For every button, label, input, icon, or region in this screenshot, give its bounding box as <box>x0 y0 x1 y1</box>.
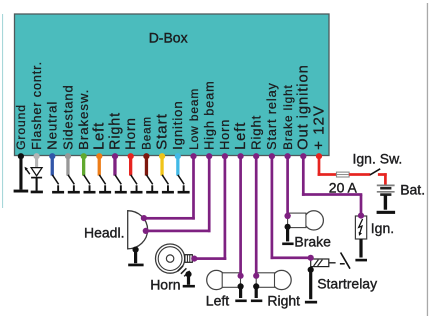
pin label Brake light (pin 18) <box>281 84 295 150</box>
pin label Left (pin 6) <box>92 122 108 150</box>
wire Brake light (pin18) to brake bulb <box>286 156 289 217</box>
node left bulb <box>238 273 244 279</box>
svg-text:Sidestand: Sidestand <box>60 84 75 149</box>
battery Bat. <box>377 185 395 209</box>
terminal node pin 19 (Out ignition) <box>300 153 306 159</box>
wire Right (pin7) <box>113 156 116 176</box>
pin label Right (pin 16) <box>249 115 264 150</box>
horn terminal bracket <box>185 255 192 263</box>
switch Sidestand to ground <box>68 175 80 194</box>
svg-text:Out ignition: Out ignition <box>296 64 312 150</box>
label Brake <box>294 233 331 249</box>
label Startrelay <box>317 275 377 291</box>
terminal node pin 1 (Ground) <box>18 153 24 159</box>
label Left <box>206 292 229 308</box>
startrelay coil K1 <box>311 259 329 267</box>
svg-text:Ground: Ground <box>14 104 28 150</box>
switch Right to ground <box>115 175 127 194</box>
svg-text:Ign.: Ign. <box>371 220 394 236</box>
label Right <box>267 292 300 308</box>
svg-text:D-Box: D-Box <box>149 30 188 46</box>
wire Start relay (pin17) to startrelay coil <box>271 156 311 259</box>
svg-text:Startrelay: Startrelay <box>317 275 377 291</box>
wire ignition switch to battery <box>378 173 387 186</box>
wire Brakesw. (pin5) <box>82 156 85 176</box>
terminal node pin 17 (Start relay) <box>269 153 275 159</box>
headlight lamp Headl. <box>128 211 148 249</box>
terminal node pin 15 (Left) <box>238 153 244 159</box>
wire Flasher contr. (pin2) <box>35 156 38 168</box>
horn mount hatching <box>178 266 190 277</box>
terminal node pin 14 (Horn) <box>222 153 228 159</box>
D-Box control box U1 <box>15 14 330 156</box>
svg-text:Ign. Sw.: Ign. Sw. <box>353 150 403 166</box>
wire Beam (pin9) <box>145 156 148 176</box>
pin label Left (pin 15) <box>233 122 249 150</box>
svg-text:+ 12V: + 12V <box>310 105 327 150</box>
node low beam at headlight <box>141 215 147 221</box>
right page edge line <box>427 3 428 316</box>
terminal node pin 13 (High beam) <box>206 153 212 159</box>
terminal node pin 3 (Neutral) <box>49 153 55 159</box>
terminal node pin 2 (Flasher contr.) <box>34 153 40 159</box>
pin label Ground (pin 1) <box>14 104 28 150</box>
ground lead right bulb <box>253 283 259 298</box>
svg-text:Right: Right <box>249 115 264 150</box>
svg-text:Start relay: Start relay <box>265 82 279 150</box>
terminal node pin 12 (Low beam) <box>190 153 196 159</box>
wire Horn (pin14) to horn <box>194 156 226 260</box>
pin label Horn (pin 8) <box>123 117 138 150</box>
node horn feed <box>191 256 197 262</box>
left indicator bulb <box>207 270 241 289</box>
switch Ignition to ground <box>178 175 190 194</box>
fuse 20 A <box>337 172 350 177</box>
switch Horn to ground <box>131 175 143 194</box>
svg-text:Horn: Horn <box>150 276 180 292</box>
ground symbol startrelay <box>305 301 317 304</box>
svg-text:Horn: Horn <box>218 119 232 150</box>
terminal node pin 6 (Left) <box>96 153 102 159</box>
svg-text:Horn: Horn <box>123 117 138 150</box>
horn <box>156 244 185 273</box>
svg-text:Low beam: Low beam <box>187 88 201 150</box>
svg-text:Left: Left <box>206 292 229 308</box>
svg-text:Left: Left <box>233 122 249 150</box>
ground lead ignition coil <box>359 239 362 258</box>
pin label Flasher contr. (pin 2) <box>30 61 44 150</box>
left page edge line <box>2 14 3 208</box>
svg-text:Right: Right <box>107 112 123 150</box>
label Ign. Sw. <box>353 150 403 166</box>
wire Start (pin10) <box>160 156 163 176</box>
node right bulb <box>253 273 259 279</box>
terminal node pin 10 (Start) <box>159 153 165 159</box>
redraw brake node over bulb <box>285 213 291 219</box>
svg-text:High beam: High beam <box>203 80 217 149</box>
wire High beam (pin13) to headlight <box>146 156 211 232</box>
wire Out ignition (pin19) to ignition coil <box>302 156 362 216</box>
wire Ground (pin1) <box>19 156 22 190</box>
indicator lamp LED (flasher control) <box>25 167 43 191</box>
svg-text:Right: Right <box>267 292 300 308</box>
wire Low beam (pin12) to headlight <box>144 156 195 220</box>
svg-text:Brakesw.: Brakesw. <box>76 89 91 150</box>
pin label Right (pin 7) <box>107 112 123 150</box>
pin label Horn (pin 14) <box>218 119 232 150</box>
pin label Out ignition (pin 19) <box>296 64 312 150</box>
pin label Brakesw. (pin 5) <box>76 89 91 150</box>
terminal node pin 5 (Brakesw.) <box>81 153 87 159</box>
ground symbol left bulb <box>235 300 246 303</box>
node ignition coil <box>358 213 364 219</box>
brake light bulb <box>288 211 324 230</box>
ground symbol right bulb <box>251 300 262 303</box>
pin label Low beam (pin 12) <box>187 88 201 150</box>
pin label Sidestand (pin 4) <box>60 84 75 149</box>
wire fuse to ignition switch <box>349 173 370 176</box>
ground symbol headlight <box>128 264 143 267</box>
svg-text:Start: Start <box>153 113 170 150</box>
svg-text:Beam: Beam <box>141 116 154 150</box>
svg-text:Brake light: Brake light <box>281 84 295 150</box>
ground symbol pin2 <box>31 191 43 194</box>
svg-text:Ignition: Ignition <box>170 100 185 149</box>
node startrelay coil <box>308 255 314 261</box>
switch Start to ground <box>162 175 174 194</box>
svg-text:20 A: 20 A <box>329 180 358 196</box>
wire Left (pin15) to left indicators <box>239 156 242 277</box>
svg-text:Bat.: Bat. <box>400 182 425 198</box>
wire Horn (pin8) <box>129 156 132 176</box>
ground lead headlight <box>133 247 139 264</box>
terminal node pin 11 (Ignition) <box>175 153 181 159</box>
pin label Ignition (pin 11) <box>170 100 185 149</box>
terminal node pin 7 (Right) <box>112 153 118 159</box>
terminal node pin 20 (+ 12V) <box>316 153 322 159</box>
wire +12V (pin20) to fuse <box>318 156 338 176</box>
terminal node pin 8 (Horn) <box>128 153 134 159</box>
ground lead startrelay <box>308 267 314 300</box>
pin label Neutral (pin 3) <box>45 101 60 150</box>
ground symbol battery <box>377 211 396 214</box>
terminal node pin 18 (Brake light) <box>285 153 291 159</box>
ground symbol brake bulb <box>282 243 293 246</box>
pin label High beam (pin 13) <box>203 80 217 149</box>
wire Sidestand (pin4) <box>66 156 69 176</box>
switch Brakesw. to ground <box>84 175 96 194</box>
ground lead horn <box>185 271 191 285</box>
svg-text:Headl.: Headl. <box>84 225 124 241</box>
switch Ign. Sw. lever <box>370 169 380 175</box>
label Headl. <box>84 225 124 241</box>
switch Neutral to ground <box>52 175 64 194</box>
switch starter contact <box>340 253 350 269</box>
label 20 A <box>329 180 358 196</box>
label Ign. <box>371 220 394 236</box>
ignition coil Ign. <box>355 216 366 239</box>
ground lead left bulb <box>238 283 244 298</box>
pin label Start relay (pin 17) <box>265 82 279 150</box>
node high beam at headlight <box>143 228 149 234</box>
svg-text:Brake: Brake <box>294 233 331 249</box>
terminal node pin 9 (Beam) <box>143 153 149 159</box>
ground symbol horn <box>183 285 195 288</box>
label Horn <box>150 276 180 292</box>
switch Left to ground <box>99 175 111 194</box>
ground symbol pin1 <box>14 190 29 193</box>
terminal node pin 16 (Right) <box>253 153 259 159</box>
pin label Start (pin 10) <box>153 113 170 150</box>
pin label + 12V (pin 20) <box>310 105 327 150</box>
svg-text:Neutral: Neutral <box>45 101 60 150</box>
svg-text:Left: Left <box>92 122 108 150</box>
node brake bulb <box>285 213 291 219</box>
wire relay to starter switch <box>329 262 336 264</box>
switch Beam to ground <box>146 175 158 194</box>
ground lead brake bulb <box>285 224 291 242</box>
right indicator bulb <box>256 270 291 289</box>
wire Ignition (pin11) <box>176 156 179 176</box>
label Bat. <box>400 182 425 198</box>
wire Left (pin6) <box>98 156 101 176</box>
pin label Beam (pin 9) <box>141 116 154 150</box>
wire Neutral (pin3) <box>51 156 54 176</box>
svg-text:Flasher contr.: Flasher contr. <box>30 61 44 150</box>
ground symbol ignition coil <box>355 259 367 262</box>
wire Right (pin16) to right indicators <box>255 156 258 277</box>
terminal node pin 4 (Sidestand) <box>65 153 71 159</box>
